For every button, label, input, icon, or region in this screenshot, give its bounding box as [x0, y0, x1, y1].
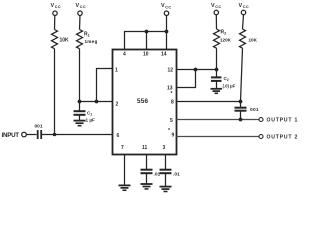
svg-text:1: 1: [88, 34, 90, 38]
svg-text:CC: CC: [243, 5, 249, 9]
ground (C2): [211, 89, 223, 94]
svg-text:10K: 10K: [249, 38, 258, 43]
svg-text:3: 3: [163, 145, 166, 151]
junction node A dots: [78, 100, 99, 104]
capacitor .01 (pin 11): [141, 170, 153, 184]
svg-text:1: 1: [90, 113, 92, 117]
wire pin 12 to node B: [177, 69, 217, 71]
wire pin 13 up to pin 12 line: [177, 70, 196, 88]
svg-text:001: 001: [250, 107, 259, 113]
wire right 10K to node C: [241, 48, 243, 101]
wire pin 11 to cap: [146, 155, 148, 170]
wire pin 2 to node A: [80, 101, 113, 103]
svg-text:.01: .01: [154, 172, 161, 178]
svg-text:4: 4: [123, 52, 126, 58]
pin 4 label: [123, 52, 126, 58]
OUTPUT 2 terminal: [259, 135, 263, 139]
ground (pin 7): [119, 185, 131, 190]
label C2 .01uF: [223, 76, 236, 89]
ground (C1): [74, 121, 86, 126]
label VCC4: [211, 3, 221, 9]
label R2 120K: [220, 30, 232, 43]
svg-text:10: 10: [143, 52, 149, 58]
svg-text:7: 7: [121, 145, 124, 151]
pin 3 label: [163, 145, 166, 151]
pin 6 label: [117, 133, 120, 139]
junction dot output1/cap: [239, 118, 243, 122]
junction dots on VCC bar: [145, 30, 169, 34]
wire pin 1 to node A: [97, 69, 113, 102]
pin 5 label: [170, 118, 173, 124]
label 556: [137, 98, 149, 105]
svg-text:1meg: 1meg: [85, 39, 98, 44]
power terminal VCC4 (R2): [214, 10, 218, 29]
capacitor C1: [74, 102, 86, 121]
label VCC1: [51, 3, 61, 9]
label R1 1meg: [84, 32, 98, 45]
label VCC5: [239, 3, 249, 9]
svg-text:OUTPUT 2: OUTPUT 2: [267, 135, 299, 141]
label INPUT: [2, 132, 20, 139]
power terminal VCC2 (top, R1): [78, 11, 82, 30]
svg-text:9: 9: [172, 133, 175, 139]
wire pin 3 to cap: [165, 155, 167, 170]
svg-text:11: 11: [142, 145, 148, 151]
svg-text:556: 556: [137, 98, 149, 105]
wire 10K to input node: [54, 49, 56, 135]
value label 10K right: [249, 38, 258, 43]
value label 10K: [60, 38, 70, 44]
svg-text:OUTPUT 1: OUTPUT 1: [267, 118, 299, 124]
pin 13 label: [167, 86, 173, 92]
resistor R1: [77, 30, 83, 49]
power terminal VCC3 (top of IC): [164, 11, 168, 32]
resistor 10K (input pull-up): [52, 30, 58, 49]
svg-text:INPUT: INPUT: [2, 132, 20, 139]
value label 001: [35, 124, 43, 130]
wire pin 5 to OUTPUT 1: [177, 119, 259, 121]
svg-text:1: 1: [115, 68, 118, 74]
wire input node to pin 6: [41, 134, 112, 136]
wire R2 to node B: [216, 48, 218, 69]
capacitor C2: [211, 70, 222, 89]
resistor 10K (output pull-up): [240, 29, 246, 48]
pin 8 label: [171, 91, 175, 106]
svg-text:8: 8: [171, 100, 174, 106]
svg-text:5: 5: [170, 118, 173, 124]
power terminal VCC5 (right 10K): [241, 10, 245, 29]
pin 11 label: [142, 145, 148, 151]
svg-text:2: 2: [116, 102, 119, 108]
pin 7 label: [121, 145, 124, 151]
svg-text:10K: 10K: [60, 38, 70, 44]
pin 12 label: [168, 68, 174, 74]
pin 1 label: [115, 68, 118, 74]
value label .01 (pin 3 cap): [173, 172, 180, 178]
pin 9 label: [168, 128, 175, 139]
svg-text:12: 12: [168, 68, 174, 74]
svg-text:2: 2: [224, 32, 226, 36]
value label 001 (output cap): [250, 107, 259, 113]
pin 14 label: [161, 52, 167, 58]
ground (pin 3 cap): [160, 187, 172, 192]
label VCC2: [76, 3, 86, 9]
wire VCC bus bar pins 4-10-14: [125, 32, 167, 50]
svg-text:001: 001: [35, 124, 43, 130]
svg-text:(.0) µF: (.0) µF: [223, 84, 236, 89]
svg-text:*: *: [168, 128, 170, 134]
svg-text:.01: .01: [173, 172, 180, 178]
svg-text:6: 6: [117, 133, 120, 139]
label C1 1uF: [86, 111, 95, 123]
resistor R2: [214, 29, 220, 48]
wire R1 to node A (pins 1-2): [79, 49, 81, 102]
INPUT terminal: [22, 132, 27, 137]
svg-text:CC: CC: [165, 5, 171, 9]
junction node C dot: [239, 100, 243, 104]
pin 10 label: [143, 52, 149, 58]
junction input node dot: [53, 133, 57, 137]
svg-text:CC: CC: [80, 5, 86, 9]
capacitor .01 (pin 3): [160, 170, 172, 187]
label OUTPUT 2: [267, 135, 299, 141]
svg-text:CC: CC: [215, 5, 221, 9]
svg-text:120K: 120K: [220, 38, 232, 43]
svg-text:14: 14: [161, 52, 167, 58]
power terminal VCC1 (top-left, 10K pull-up): [53, 11, 57, 30]
svg-text:2: 2: [227, 78, 229, 82]
svg-text:CC: CC: [55, 5, 61, 9]
wire INPUT terminal to coupling cap: [26, 134, 36, 136]
label VCC3: [161, 3, 171, 9]
capacitor 001 (output coupling): [235, 102, 247, 120]
svg-text:*: *: [171, 91, 173, 97]
capacitor .001 (input coupling): [38, 130, 42, 139]
junction dots pin12 line: [194, 68, 219, 72]
label OUTPUT 1: [267, 118, 299, 124]
svg-text:1 µF: 1 µF: [86, 118, 95, 123]
OUTPUT 1 terminal: [259, 118, 263, 122]
pin 2 label: [116, 102, 119, 108]
wire pin 7 to ground: [124, 155, 126, 186]
wire pin 8 to node C: [177, 101, 241, 103]
op-amp U1 556 IC body: [113, 50, 177, 155]
wire pin 9 to OUTPUT 2: [177, 136, 259, 138]
ground (pin 11 cap): [141, 184, 153, 189]
value label .01 (pin 11 cap): [154, 172, 161, 178]
